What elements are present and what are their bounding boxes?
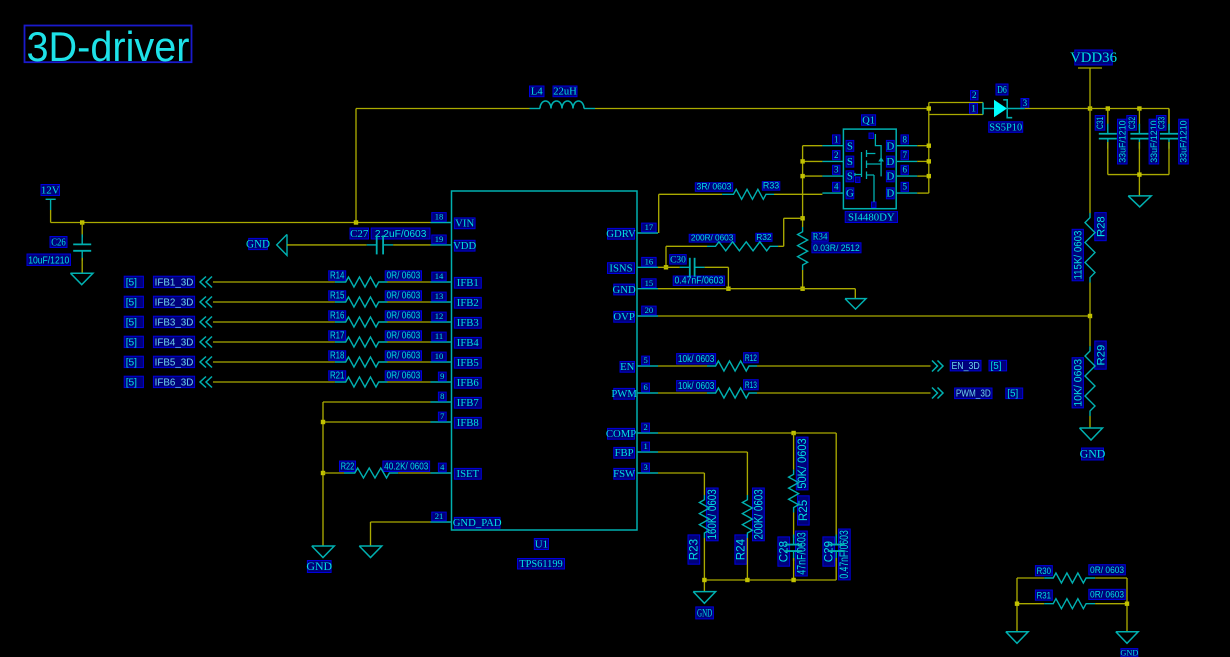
svg-text:C26: C26 <box>51 236 66 248</box>
svg-text:1: 1 <box>971 103 976 114</box>
junction R34 gnd <box>800 287 804 291</box>
svg-text:22uH: 22uH <box>553 87 577 98</box>
svg-text:47nF/0603: 47nF/0603 <box>795 532 808 575</box>
pin 18 VIN <box>431 212 476 230</box>
svg-text:D: D <box>886 156 894 168</box>
wire port to R17 <box>213 341 335 343</box>
diode D6 SS5P10 <box>970 84 1029 133</box>
svg-text:R28: R28 <box>1095 216 1107 237</box>
svg-text:TPS61199: TPS61199 <box>519 559 563 570</box>
svg-text:R13: R13 <box>745 379 757 390</box>
junction at C26 <box>80 220 84 224</box>
junction bottom bus gnd stem <box>1137 172 1141 176</box>
svg-text:R15: R15 <box>330 291 345 302</box>
wire IFB7 to left bus <box>323 402 431 546</box>
svg-text:9: 9 <box>440 371 444 381</box>
pin 3 FSW <box>613 462 658 480</box>
capacitor C31 33uF/1210 <box>1095 109 1128 175</box>
wire riser to top rail <box>355 109 357 223</box>
svg-text:GND: GND <box>246 239 270 251</box>
svg-text:0R/ 0603: 0R/ 0603 <box>386 291 420 302</box>
svg-text:[5]: [5] <box>1007 389 1018 400</box>
svg-text:6: 6 <box>903 165 908 175</box>
svg-text:PWM: PWM <box>611 388 637 400</box>
wire port to R21 <box>213 381 335 383</box>
inductor L4 <box>530 86 596 109</box>
svg-text:R25: R25 <box>797 500 810 521</box>
wire R30/R31 left leg <box>1016 578 1018 632</box>
junction source bus R32 tap <box>800 216 804 220</box>
resistor R22 40.2K/0603 <box>323 461 431 478</box>
wire R17 to pin <box>387 341 430 343</box>
svg-text:FSW: FSW <box>613 468 636 480</box>
wire R32 branch <box>784 218 803 246</box>
svg-text:IFB6: IFB6 <box>457 377 480 389</box>
resistor R23 160K/0603 <box>688 488 719 580</box>
svg-text:14: 14 <box>435 271 444 281</box>
svg-text:S: S <box>847 171 853 183</box>
junction drain bus top <box>927 106 931 110</box>
svg-text:33uF/1210: 33uF/1210 <box>1179 120 1190 162</box>
junction source bus pin3 <box>800 174 804 178</box>
resistor R24 200K/0603 <box>735 488 766 580</box>
svg-text:R23: R23 <box>688 539 701 560</box>
svg-text:R18: R18 <box>330 351 345 362</box>
svg-text:R33: R33 <box>763 181 779 191</box>
svg-text:U1: U1 <box>535 538 548 550</box>
wire R16 to pin <box>387 321 430 323</box>
svg-text:Q1: Q1 <box>862 115 875 126</box>
Q1 pin 3 S <box>822 165 853 183</box>
wire R15 to pin <box>387 301 430 303</box>
svg-text:[5]: [5] <box>126 297 137 308</box>
svg-text:IFB5: IFB5 <box>457 357 479 369</box>
svg-text:200R/ 0603: 200R/ 0603 <box>691 234 734 243</box>
svg-text:[5]: [5] <box>991 361 1002 372</box>
svg-text:3: 3 <box>1023 99 1028 109</box>
ground under C26 <box>70 273 93 285</box>
svg-text:0.47nF/0603: 0.47nF/0603 <box>674 276 723 287</box>
resistor R25 50K/0603 <box>789 433 811 538</box>
svg-text:0R/ 0603: 0R/ 0603 <box>1090 590 1124 601</box>
resistor R14 0R/0603 <box>329 271 422 288</box>
svg-text:2: 2 <box>834 150 839 160</box>
junction C30 gnd <box>726 287 730 291</box>
svg-text:3: 3 <box>834 165 839 175</box>
capacitor C26 <box>27 223 91 274</box>
svg-text:EN_3D: EN_3D <box>951 361 979 372</box>
resistor R28 115K/0603 <box>1072 213 1107 316</box>
ground left bus <box>306 546 334 573</box>
wire C30 to GND net <box>705 267 729 288</box>
resistor R17 0R/0603 <box>329 331 422 348</box>
junction COMP R25 <box>791 431 795 435</box>
junction drain bus pin8 <box>927 144 931 148</box>
svg-text:[5]: [5] <box>126 317 137 328</box>
port GND <box>246 234 287 255</box>
wire port to R15 <box>213 301 335 303</box>
wire COMP net <box>658 433 836 538</box>
svg-text:IFB2_3D: IFB2_3D <box>155 297 194 308</box>
svg-text:6: 6 <box>643 382 648 392</box>
svg-text:0R/ 0603: 0R/ 0603 <box>386 331 420 342</box>
svg-text:R22: R22 <box>341 462 355 473</box>
svg-text:200K/ 0603: 200K/ 0603 <box>752 489 765 539</box>
pin 2 COMP <box>606 422 658 440</box>
svg-text:FBP: FBP <box>615 447 634 459</box>
Q1 pin 6 D <box>886 165 917 183</box>
pin 11 IFB4 <box>431 331 482 349</box>
svg-text:19: 19 <box>435 234 444 244</box>
wire port to R18 <box>213 361 335 363</box>
resistor R31 0R/0603 <box>1017 589 1127 608</box>
wire ISNS to C30 <box>658 266 680 268</box>
svg-text:[5]: [5] <box>126 377 137 388</box>
ground under GND_PAD <box>359 546 382 558</box>
svg-text:7: 7 <box>440 411 445 421</box>
svg-text:VIN: VIN <box>455 218 474 230</box>
Q1 pin 5 D <box>886 182 917 200</box>
svg-text:R31: R31 <box>1037 590 1051 601</box>
svg-text:S: S <box>847 156 853 168</box>
junction VDD36 rail <box>1088 106 1092 110</box>
pin 21 GND_PAD <box>431 511 502 529</box>
svg-text:2: 2 <box>643 422 647 432</box>
Q1 pin 1 S <box>822 134 853 152</box>
pin 15 GND <box>613 278 658 296</box>
svg-text:ISNS: ISNS <box>609 262 632 274</box>
wire top rail right <box>595 108 929 110</box>
svg-text:IFB3_3D: IFB3_3D <box>155 317 194 328</box>
junction right leg <box>1125 602 1129 606</box>
ground under caps <box>1128 196 1151 207</box>
ground under R29 <box>1080 428 1106 461</box>
svg-text:VDD36: VDD36 <box>1070 50 1117 66</box>
svg-text:VDD: VDD <box>453 240 476 252</box>
svg-text:11: 11 <box>435 331 443 341</box>
resistor R29 10K/0603 <box>1072 316 1107 428</box>
svg-text:18: 18 <box>435 212 444 222</box>
svg-text:10k/ 0603: 10k/ 0603 <box>678 381 715 392</box>
svg-text:0R/ 0603: 0R/ 0603 <box>386 371 420 382</box>
wire R14 to pin <box>387 281 430 283</box>
wire D6 cathode to VDD36 <box>1025 108 1090 110</box>
resistor R12 10k/0603 <box>658 352 931 371</box>
junction rail C28 <box>791 578 795 582</box>
svg-text:0R/ 0603: 0R/ 0603 <box>386 271 420 282</box>
svg-text:21: 21 <box>435 511 444 521</box>
port [5] IFB2_3D <box>124 296 212 308</box>
svg-text:IFB4: IFB4 <box>457 337 480 349</box>
junction at riser <box>354 220 358 224</box>
junction drain bus pin7 <box>927 159 931 163</box>
svg-text:1: 1 <box>834 134 839 144</box>
svg-text:D: D <box>886 188 894 200</box>
port [5] IFB3_3D <box>124 316 212 328</box>
svg-text:115K/ 0603: 115K/ 0603 <box>1072 231 1084 280</box>
wire divider bottom rail <box>704 580 836 592</box>
svg-text:17: 17 <box>645 222 654 232</box>
wire GND port to C27 <box>287 244 367 246</box>
svg-text:3: 3 <box>643 462 647 472</box>
pin 14 IFB1 <box>431 271 482 289</box>
wire top rail left <box>356 108 530 110</box>
pin 16 ISNS <box>608 256 659 274</box>
svg-text:5: 5 <box>903 182 908 192</box>
resistor R34 0.03R/2512 <box>798 227 861 289</box>
svg-text:R14: R14 <box>330 271 345 282</box>
svg-text:4: 4 <box>440 462 445 472</box>
Q1 pin 4 G <box>822 182 854 200</box>
svg-text:C32: C32 <box>1127 117 1138 129</box>
svg-text:R29: R29 <box>1095 345 1107 366</box>
svg-text:D: D <box>886 171 894 183</box>
resistor R32 200R/0603 <box>666 232 784 267</box>
resistor R13 10k/0603 <box>658 379 931 398</box>
svg-text:IFB1: IFB1 <box>457 277 479 289</box>
pin 12 IFB3 <box>431 311 482 329</box>
port [5] IFB6_3D <box>124 376 212 388</box>
svg-text:D6: D6 <box>997 84 1007 96</box>
port PWM_3D <box>932 388 1023 400</box>
resistor R15 0R/0603 <box>329 291 422 308</box>
svg-text:IFB4_3D: IFB4_3D <box>155 337 194 348</box>
svg-text:C33: C33 <box>1156 117 1167 129</box>
pin 9 IFB6 <box>431 371 482 389</box>
wire Q1 source bus <box>803 146 823 227</box>
port [5] IFB4_3D <box>124 336 212 348</box>
capacitor C27 <box>350 228 430 255</box>
svg-text:50K/ 0603: 50K/ 0603 <box>796 438 809 488</box>
wire R21 to pin <box>387 381 430 383</box>
wire GDRV up <box>659 194 722 233</box>
pin 13 IFB2 <box>431 291 482 309</box>
svg-text:ISET: ISET <box>457 468 480 480</box>
wire OVP to feedback divider <box>658 315 1090 317</box>
svg-text:4: 4 <box>834 182 839 192</box>
junction rail gnd stem <box>702 578 706 582</box>
svg-text:R34: R34 <box>813 232 828 242</box>
svg-text:R24: R24 <box>735 538 748 560</box>
svg-text:[5]: [5] <box>126 337 137 348</box>
svg-text:SI4480DY: SI4480DY <box>848 211 895 223</box>
svg-text:40.2K/ 0603: 40.2K/ 0603 <box>384 462 429 473</box>
svg-text:3D-driver: 3D-driver <box>27 23 190 70</box>
svg-text:[5]: [5] <box>126 277 137 288</box>
svg-text:10uF/1210: 10uF/1210 <box>28 255 69 266</box>
svg-text:GDRV: GDRV <box>606 228 636 240</box>
svg-text:10K/ 0603: 10K/ 0603 <box>1072 359 1084 407</box>
pin 4 ISET <box>431 462 482 480</box>
pin 10 IFB5 <box>431 351 482 369</box>
junction drain bus pin6 <box>927 174 931 178</box>
resistor R30 0R/0603 <box>1017 565 1127 583</box>
wire FSW net <box>658 473 704 495</box>
svg-text:GND: GND <box>697 606 712 620</box>
svg-text:PWM_3D: PWM_3D <box>956 389 991 400</box>
capacitor C33 33uF/1210 <box>1156 109 1189 175</box>
svg-text:160K/ 0603: 160K/ 0603 <box>706 489 719 539</box>
wire port to R16 <box>213 321 335 323</box>
svg-text:IFB6_3D: IFB6_3D <box>155 377 194 388</box>
ground left leg <box>1006 632 1028 644</box>
power port 12V <box>41 184 60 222</box>
svg-text:EN: EN <box>620 361 635 373</box>
pin 1 FBP <box>614 441 658 459</box>
svg-text:[5]: [5] <box>126 357 137 368</box>
capacitor C28 47nF/0603 <box>778 531 809 580</box>
svg-text:0R/ 0603: 0R/ 0603 <box>386 311 420 322</box>
junction R22 <box>321 471 325 475</box>
svg-text:C31: C31 <box>1095 117 1106 129</box>
pin 19 VDD <box>431 234 477 252</box>
svg-text:2: 2 <box>972 91 977 101</box>
svg-text:0R/ 0603: 0R/ 0603 <box>1090 565 1124 576</box>
pin 6 PWM <box>611 382 658 400</box>
port [5] IFB5_3D <box>124 356 212 368</box>
junction ISNS split <box>664 265 668 269</box>
IC U1 TPS61199 body <box>452 191 638 570</box>
Q1 pin 8 D <box>886 134 917 152</box>
wire cap bottom bus <box>1108 175 1169 196</box>
svg-text:0.47nF/0603: 0.47nF/0603 <box>838 530 851 578</box>
junction source bus pin2 <box>800 159 804 163</box>
Q1 pin 2 S <box>822 150 853 168</box>
svg-text:G: G <box>846 188 854 200</box>
svg-text:OVP: OVP <box>613 311 634 323</box>
svg-text:13: 13 <box>435 291 444 301</box>
ground under divider <box>693 592 715 620</box>
transistor Q1 SI4480DY body <box>843 115 897 224</box>
svg-text:0R/ 0603: 0R/ 0603 <box>386 351 420 362</box>
resistor R21 0R/0603 <box>329 371 422 388</box>
wire R33 to Q1 gate <box>774 193 822 195</box>
svg-text:GND: GND <box>1080 447 1106 461</box>
wire Q1 drain bus <box>917 103 929 194</box>
wire C27 to VDD pin <box>393 244 430 246</box>
svg-text:D: D <box>886 140 894 152</box>
capacitor C30 0.47nF/0603 <box>670 255 725 287</box>
wire R30/R31 right leg <box>1126 578 1128 632</box>
svg-text:GND: GND <box>306 559 332 573</box>
resistor R16 0R/0603 <box>329 311 422 328</box>
svg-text:8: 8 <box>440 391 444 401</box>
svg-text:15: 15 <box>645 278 654 288</box>
wire IFB8 to left bus <box>323 421 431 423</box>
wire 12V rail to VIN <box>51 222 431 224</box>
resistor R18 0R/0603 <box>329 351 422 368</box>
wire port to R14 <box>213 281 335 283</box>
ground right leg <box>1116 632 1139 657</box>
svg-text:GND: GND <box>613 284 636 296</box>
svg-text:20: 20 <box>645 305 654 315</box>
junction IFB8 <box>321 420 325 424</box>
svg-text:IFB2: IFB2 <box>457 297 479 309</box>
wire FBP net <box>658 452 747 495</box>
svg-text:7: 7 <box>903 150 908 160</box>
junction rail R24 <box>745 578 749 582</box>
pin 8 IFB7 <box>431 391 482 409</box>
title 3D-driver <box>25 23 192 70</box>
svg-text:GND: GND <box>1120 648 1138 657</box>
power port VDD36 <box>1070 50 1117 109</box>
svg-text:R30: R30 <box>1037 566 1051 577</box>
svg-text:R21: R21 <box>330 371 345 382</box>
pin 7 IFB8 <box>431 411 482 429</box>
junction left leg <box>1015 602 1019 606</box>
port EN_3D <box>932 360 1007 372</box>
svg-text:5: 5 <box>643 355 647 365</box>
Q1 pin 7 D <box>886 150 917 168</box>
svg-text:IFB8: IFB8 <box>457 417 479 429</box>
svg-text:0.03R/ 2512: 0.03R/ 2512 <box>813 243 860 253</box>
svg-text:R12: R12 <box>745 352 757 363</box>
svg-text:R17: R17 <box>330 331 345 342</box>
svg-text:C27: C27 <box>350 228 369 240</box>
junction OVP divider <box>1088 314 1092 318</box>
svg-text:16: 16 <box>645 256 654 266</box>
svg-text:R32: R32 <box>756 232 772 242</box>
ground right of Q1 <box>845 299 866 310</box>
svg-text:12: 12 <box>435 311 444 321</box>
svg-text:1: 1 <box>643 441 647 451</box>
pin 5 EN <box>620 355 658 373</box>
wire D6 anode pins <box>929 103 983 115</box>
port [5] IFB1_3D <box>124 276 212 288</box>
capacitor C29 0.47nF/0603 <box>823 529 852 580</box>
svg-text:C30: C30 <box>670 255 686 265</box>
Q1 mosfet symbol <box>851 133 884 208</box>
svg-text:10k/ 0603: 10k/ 0603 <box>678 354 715 365</box>
wire cap top bus <box>1090 109 1169 131</box>
svg-text:R16: R16 <box>330 311 345 322</box>
pin 17 GDRV <box>606 222 658 240</box>
pin 20 OVP <box>613 305 658 323</box>
resistor R33 3R/0603 <box>695 181 780 200</box>
junction top bus C31 <box>1106 106 1110 110</box>
wire R18 to pin <box>387 361 430 363</box>
svg-text:10: 10 <box>435 351 444 361</box>
junction top bus C32 <box>1137 106 1141 110</box>
svg-text:IFB1_3D: IFB1_3D <box>155 277 194 288</box>
svg-text:COMP: COMP <box>606 428 636 440</box>
svg-text:IFB5_3D: IFB5_3D <box>155 357 194 368</box>
svg-text:IFB3: IFB3 <box>457 317 479 329</box>
svg-text:GND_PAD: GND_PAD <box>453 517 502 529</box>
wire VDD36 down to R28 <box>1089 109 1091 214</box>
svg-text:8: 8 <box>903 134 908 144</box>
svg-text:IFB7: IFB7 <box>457 397 480 409</box>
wire GND_PAD to ground <box>371 522 431 546</box>
svg-text:12V: 12V <box>41 184 60 196</box>
svg-text:SS5P10: SS5P10 <box>989 122 1022 133</box>
capacitor C32 33uF/1210 <box>1127 109 1160 175</box>
svg-text:3R/ 0603: 3R/ 0603 <box>697 182 732 192</box>
svg-text:S: S <box>847 140 853 152</box>
wire GND pin to ground <box>658 289 855 299</box>
svg-text:L4: L4 <box>531 87 543 98</box>
